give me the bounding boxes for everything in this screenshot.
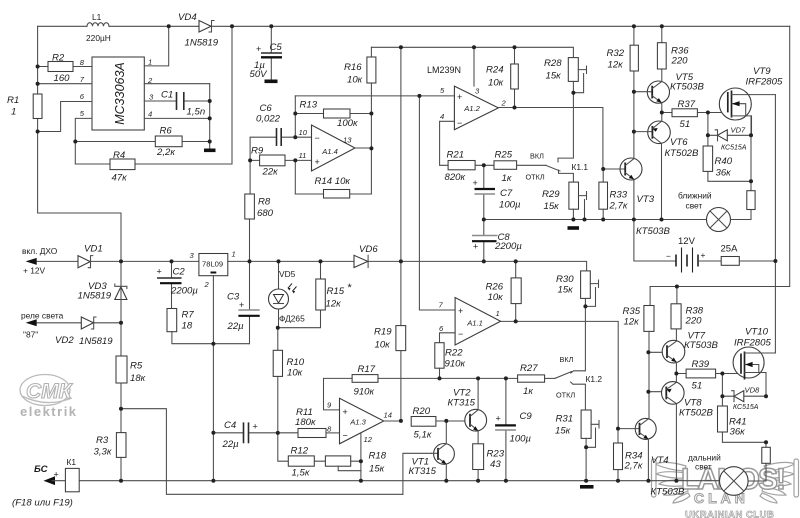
regulator 78L09 (190, 250, 236, 290)
resistor R1 (7, 94, 42, 119)
capacitor C3 (227, 261, 260, 343)
svg-text:C7: C7 (500, 188, 513, 199)
svg-text:820к: 820к (445, 172, 466, 183)
svg-text:R8: R8 (258, 197, 271, 208)
MOSFET VT9 IRF2805 (719, 66, 783, 135)
svg-text:+ 12V: + 12V (23, 266, 46, 276)
svg-text:R27: R27 (520, 363, 538, 374)
wire IC ground stem x=209.7 (209, 84, 211, 149)
svg-text:R6: R6 (160, 126, 173, 137)
inductor L1 (86, 12, 111, 43)
resistor R12 (278, 433, 326, 479)
resistor R41 (718, 396, 767, 442)
resistor R35 (623, 306, 655, 332)
wire A1.2 pin3 Vcc stub (473, 47, 475, 86)
junction dots bottom rail (119, 479, 678, 483)
junction dots left lower column (119, 321, 280, 435)
svg-text:+: + (315, 157, 320, 167)
resistor R14 (295, 176, 371, 198)
svg-text:15к: 15к (369, 464, 385, 475)
resistor R27 (518, 363, 555, 397)
wire A1.1 output to VT4 base (501, 321, 619, 428)
svg-text:реле света: реле света (21, 311, 64, 321)
svg-text:ФД265: ФД265 (279, 314, 305, 324)
junction dots oscillator A1.4 (248, 112, 373, 163)
resistor R23 (473, 444, 505, 481)
resistor ballast (near light) (747, 181, 755, 219)
capacitor C2 (157, 261, 199, 308)
switch K1.1 (526, 93, 589, 182)
svg-text:L1: L1 (92, 12, 102, 22)
wire pin2 (144, 83, 209, 85)
svg-text:R23: R23 (487, 449, 505, 460)
resistor R28 trimmer (544, 58, 587, 93)
svg-text:IRF2805: IRF2805 (734, 338, 771, 349)
svg-text:+: + (473, 242, 478, 252)
diode VD3 1N5819 (78, 281, 127, 302)
wire pin6 to R1 bottom (38, 102, 92, 132)
svg-text:12к: 12к (608, 60, 624, 71)
svg-text:51: 51 (692, 381, 703, 392)
svg-text:C6: C6 (260, 103, 273, 114)
svg-text:78L09: 78L09 (202, 260, 223, 269)
wire pin3 to C1 (144, 100, 209, 102)
svg-text:2,7к: 2,7к (624, 461, 643, 472)
svg-text:ОТКЛ: ОТКЛ (556, 391, 575, 400)
svg-text:R20: R20 (413, 406, 431, 417)
resistor R37 (672, 99, 728, 130)
svg-text:1,5n: 1,5n (187, 107, 206, 118)
op-amp A1.2 (440, 86, 507, 130)
wire A1.2 pin5 line y=95.9 (295, 95, 454, 97)
junction dots driver bottom (646, 285, 768, 445)
terminal arrow реле света 87 (21, 311, 64, 340)
capacitor C7 (473, 165, 522, 235)
wire supply riser x=401 (400, 47, 402, 421)
photodiode VD5 ФД265 (269, 261, 306, 327)
resistor R3 (94, 433, 127, 481)
capacitor C1 (161, 90, 205, 118)
svg-text:−: − (343, 431, 348, 441)
svg-text:elektrik: elektrik (20, 404, 78, 419)
resistor R26 (486, 261, 522, 321)
svg-text:A1.1: A1.1 (466, 319, 483, 328)
resistor R40 (703, 135, 751, 181)
svg-text:1к: 1к (523, 386, 533, 397)
resistor R22 (435, 343, 466, 379)
relay coil K1 БС (12, 457, 121, 509)
svg-text:R9: R9 (251, 146, 264, 157)
svg-text:R3: R3 (96, 435, 109, 446)
svg-text:10: 10 (299, 128, 308, 137)
svg-text:"87": "87" (23, 330, 38, 340)
svg-text:К1.1: К1.1 (572, 162, 589, 172)
svg-text:R24: R24 (486, 65, 504, 76)
transistor VT4 KT503B (618, 418, 685, 497)
svg-text:C3: C3 (227, 292, 240, 303)
svg-text:+: + (253, 422, 258, 432)
resistor R20 (411, 406, 465, 441)
svg-text:UKRAINIAN CLUB: UKRAINIAN CLUB (685, 510, 774, 518)
svg-text:КТ502В: КТ502В (665, 148, 700, 159)
svg-text:VD4: VD4 (178, 12, 197, 23)
svg-text:+: + (256, 44, 261, 54)
svg-text:220: 220 (685, 316, 703, 327)
wire VT9 drain bus x=775.4 (774, 95, 776, 353)
svg-text:12V: 12V (678, 236, 696, 247)
op-amp A1.4 (299, 125, 372, 171)
wire VT8 collector (675, 404, 677, 481)
resistor R19 (374, 326, 406, 351)
svg-text:51: 51 (680, 119, 691, 130)
svg-text:ВКЛ: ВКЛ (560, 355, 574, 364)
svg-text:+: + (457, 92, 462, 102)
wire left input vertical x=37.6 (38, 26, 121, 261)
wire A1.2 pin4 jog (440, 121, 455, 165)
svg-text:R19: R19 (374, 327, 392, 338)
svg-text:+: + (496, 414, 501, 424)
svg-text:220µН: 220µН (86, 33, 111, 43)
MOSFET VT10 IRF2805 (733, 327, 775, 397)
resistor R31 trimmer (555, 410, 599, 481)
wire VT1 base riser (403, 453, 432, 494)
svg-text:R5: R5 (130, 361, 143, 372)
svg-text:MC33063A: MC33063A (113, 62, 127, 125)
svg-text:VT6: VT6 (670, 137, 688, 148)
svg-text:2: 2 (204, 280, 210, 289)
svg-text:910к: 910к (445, 359, 466, 370)
svg-text:100к: 100к (337, 118, 358, 129)
svg-text:1: 1 (496, 309, 500, 318)
svg-text:R12: R12 (291, 446, 309, 457)
switch K1.2 (555, 306, 602, 410)
resistor R8 (245, 194, 274, 261)
svg-text:1N5819: 1N5819 (78, 291, 112, 302)
svg-text:VT9: VT9 (753, 66, 771, 77)
junction dots A1.2 nets (417, 91, 575, 168)
svg-text:4: 4 (440, 112, 444, 121)
svg-text:свет: свет (686, 201, 703, 211)
svg-text:R39: R39 (692, 359, 710, 370)
svg-text:R10: R10 (287, 357, 305, 368)
resistor R9 (250, 146, 311, 178)
svg-text:R28: R28 (544, 58, 562, 69)
lamp far light (дальний свет) (688, 453, 766, 496)
svg-text:VD7: VD7 (731, 126, 747, 135)
svg-text:свет: свет (695, 462, 712, 472)
resistor R25 (494, 150, 546, 185)
resistor R17 (324, 364, 518, 398)
junction dots A1.1 nets (514, 304, 620, 449)
svg-text:(F18 или F19): (F18 или F19) (12, 498, 73, 509)
svg-text:R26: R26 (486, 282, 504, 293)
resistor ballast (far light) (762, 442, 771, 481)
transistor VT7 KT503B (662, 331, 718, 363)
svg-text:−: − (457, 118, 462, 128)
resistor R32 (607, 26, 639, 91)
junction dots 9V rail (119, 259, 518, 263)
wire A1.2-pin5 to A1.1-pin7 link x=419.4 (419, 96, 455, 310)
svg-text:22µ: 22µ (227, 321, 245, 332)
svg-text:18: 18 (182, 321, 193, 332)
resistor R13 (295, 100, 371, 130)
svg-text:VD1: VD1 (84, 244, 103, 255)
svg-text:К1: К1 (67, 457, 77, 467)
svg-text:3,3к: 3,3к (94, 447, 112, 458)
wire x=295.3 riser lower to R14 (294, 160, 296, 194)
svg-text:*: * (347, 282, 352, 294)
capacitor C8 (472, 232, 522, 261)
svg-text:1: 1 (148, 58, 152, 67)
op-amp A1.3 (327, 398, 401, 444)
svg-text:A1.4: A1.4 (321, 147, 338, 156)
svg-text:910к: 910к (354, 387, 375, 398)
op-amp A1.1 (439, 298, 501, 346)
svg-text:R31: R31 (556, 414, 574, 425)
svg-text:VT10: VT10 (745, 327, 769, 338)
svg-text:100µ: 100µ (499, 200, 521, 211)
resistor R2 (38, 53, 92, 85)
svg-text:25А: 25А (721, 244, 739, 255)
capacitor C9 (495, 378, 532, 480)
wire VT7/VT8 emitter node and R39 (676, 362, 686, 382)
svg-text:50V: 50V (250, 69, 269, 80)
wire VT3 collector / driver base bus x=633.9 (633, 92, 635, 220)
svg-text:C2: C2 (173, 267, 186, 278)
resistor R38 (671, 287, 704, 342)
svg-text:12к: 12к (624, 317, 640, 328)
svg-text:К1.2: К1.2 (586, 374, 603, 384)
svg-text:VD6: VD6 (359, 244, 378, 255)
resistor R7 (167, 309, 250, 344)
resistor R36 (657, 26, 689, 81)
wire A1.3 pin12 lead x=360.9 (360, 433, 362, 481)
svg-text:R14 10к: R14 10к (315, 176, 351, 187)
capacitor C4 (213, 420, 298, 450)
svg-text:10к: 10к (375, 340, 391, 351)
junction dots driver top (601, 90, 777, 263)
resistor R29 trimmer (542, 182, 587, 219)
svg-text:11: 11 (299, 151, 307, 160)
svg-text:43: 43 (490, 459, 501, 470)
junction dots left column (36, 65, 78, 144)
capacitor C6 (250, 103, 311, 194)
zener VD7 KC515A (715, 126, 747, 152)
svg-text:2,7к: 2,7к (609, 201, 628, 212)
svg-text:R7: R7 (182, 310, 195, 321)
terminal arrow вкл.ДХО +12V (22, 246, 58, 276)
svg-text:−: − (458, 329, 463, 339)
svg-text:22к: 22к (262, 167, 279, 178)
svg-text:1: 1 (232, 250, 236, 259)
resistor R4 (75, 26, 232, 183)
svg-text:C1: C1 (161, 90, 173, 101)
junction dots mid ground rail (482, 218, 664, 222)
svg-text:36к: 36к (730, 427, 746, 438)
wire A1.1 pin6 jog (440, 333, 456, 343)
svg-text:10к: 10к (488, 78, 504, 89)
ground IC (204, 149, 216, 153)
battery 12V (634, 220, 721, 273)
wire 78L09 pin2 ground bus x=213.4 (212, 276, 214, 481)
junction dots top rail (167, 24, 664, 28)
wire 9V rail y=261.4 (37, 261, 587, 271)
svg-text:КТ502В: КТ502В (679, 408, 714, 419)
svg-text:2200µ: 2200µ (494, 241, 522, 252)
wire VT7/VT8 base bus x=648.4 (648, 331, 667, 418)
svg-text:R37: R37 (678, 99, 696, 110)
svg-text:R13: R13 (300, 100, 318, 111)
svg-text:47к: 47к (112, 173, 128, 184)
wire pin5 node (75, 118, 92, 164)
wire pin4 (144, 117, 209, 119)
wire pin1 riser (144, 26, 168, 66)
diode VD1 (78, 244, 103, 268)
junction dots A1.3 nets (359, 376, 508, 463)
svg-text:15к: 15к (544, 201, 560, 212)
svg-text:КТ503В: КТ503В (651, 487, 686, 498)
svg-text:5,1к: 5,1к (414, 430, 432, 441)
svg-text:+: + (157, 267, 162, 277)
svg-text:C4: C4 (224, 420, 236, 431)
svg-text:R30: R30 (556, 274, 574, 285)
svg-text:IRF2805: IRF2805 (746, 77, 783, 88)
wire реле света line y=322.8 (37, 261, 121, 356)
svg-text:12к: 12к (326, 299, 342, 310)
svg-text:C9: C9 (520, 411, 533, 422)
svg-text:ОТКЛ: ОТКЛ (526, 173, 545, 182)
wire VT5/VT6 emitter node and R37 (662, 103, 672, 122)
svg-text:−: − (315, 133, 320, 143)
svg-text:180к: 180к (295, 417, 316, 428)
resistor R11 (295, 407, 340, 438)
capacitor C5 (250, 26, 283, 80)
watermark logo CMK elektrik (20, 375, 78, 420)
svg-text:R1: R1 (7, 95, 19, 106)
svg-text:ВКЛ: ВКЛ (530, 152, 544, 161)
svg-text:КТ315: КТ315 (409, 466, 437, 477)
svg-text:VD2: VD2 (55, 335, 74, 346)
svg-text:C5: C5 (270, 42, 283, 53)
wire A1.3 pin9 jog (324, 378, 340, 410)
ground bottom rail (580, 485, 594, 489)
svg-text:VD8: VD8 (745, 386, 761, 395)
IC MC33063A (80, 57, 154, 130)
svg-text:LM239N: LM239N (427, 65, 461, 75)
ground mid rail (568, 226, 580, 230)
svg-text:КТ503В: КТ503В (684, 340, 719, 351)
resistor R34 (614, 429, 643, 481)
svg-text:КС515А: КС515А (721, 145, 747, 152)
svg-text:КТ503В: КТ503В (670, 82, 705, 93)
svg-text:0,022: 0,022 (256, 114, 281, 125)
transistor VT6 KT502B (634, 121, 699, 159)
svg-text:вкл. ДХО: вкл. ДХО (22, 246, 58, 256)
transistor VT5 KT503B (634, 72, 705, 103)
svg-text:R22: R22 (445, 348, 463, 359)
svg-text:13: 13 (343, 136, 352, 145)
wire VT9 source vertical (750, 116, 752, 181)
resistor R10 (273, 328, 305, 433)
diode VD6 (354, 244, 378, 268)
wire top +U rail y=26 (38, 25, 790, 27)
svg-text:КС515А: КС515А (733, 404, 759, 411)
resistor R15 (278, 261, 352, 327)
svg-text:+: + (54, 470, 59, 480)
svg-text:R4: R4 (113, 150, 125, 161)
svg-text:ближний: ближний (678, 191, 712, 201)
svg-text:36к: 36к (716, 168, 732, 179)
svg-text:680: 680 (257, 208, 274, 219)
svg-text:R29: R29 (542, 189, 560, 200)
svg-text:14: 14 (384, 411, 392, 420)
svg-text:R16: R16 (344, 62, 362, 73)
svg-text:R25: R25 (495, 150, 513, 161)
resistor R16 (344, 47, 376, 194)
svg-text:R18: R18 (369, 451, 387, 462)
wire VT10 gate/protection branch (722, 374, 766, 397)
resistor R33 (599, 169, 628, 220)
svg-text:2,2к: 2,2к (156, 147, 175, 158)
junction dots Vcc rail y=47.3 (399, 45, 517, 49)
svg-text:12: 12 (364, 435, 373, 444)
svg-text:VT3: VT3 (637, 194, 655, 205)
svg-text:100µ: 100µ (510, 434, 532, 445)
transistor VT1 KT315 (409, 421, 455, 481)
wire R5-R3 node to VT1 base line (121, 383, 403, 494)
svg-text:2200µ: 2200µ (170, 286, 198, 297)
svg-text:VT4: VT4 (651, 455, 669, 466)
diode VD2 1N5819 (55, 317, 113, 347)
resistor R39 (686, 359, 741, 392)
svg-text:+: + (239, 300, 244, 310)
svg-text:1: 1 (11, 107, 16, 118)
svg-text:22µ: 22µ (222, 439, 240, 450)
svg-text:A1.3: A1.3 (349, 418, 366, 427)
transistor VT2 KT315 (448, 378, 487, 443)
svg-text:R40: R40 (715, 156, 733, 167)
lamp near light (ближний свет) (678, 191, 751, 232)
svg-text:R21: R21 (447, 150, 465, 161)
wire VT6 collector (661, 143, 663, 219)
resistor R30 trimmer (556, 271, 599, 307)
svg-text:БС: БС (34, 464, 49, 475)
watermark logo LANOS CLAN (652, 459, 799, 518)
zener VD8 KC515A (732, 386, 760, 412)
svg-text:R15: R15 (327, 286, 345, 297)
svg-text:+: + (458, 306, 463, 316)
wire Vcc comparator rail y=47.3 (371, 47, 573, 57)
svg-text:1к: 1к (502, 173, 512, 184)
svg-text:1,5к: 1,5к (292, 468, 310, 479)
transistor VT8 KT502B (662, 382, 714, 419)
wire x=295.3 riser upper (294, 96, 296, 137)
svg-text:10к: 10к (287, 368, 303, 379)
ground C5 (265, 80, 278, 84)
resistor R24 (486, 47, 518, 107)
svg-text:2: 2 (501, 99, 507, 108)
label LM239N (427, 65, 461, 75)
svg-text:A1.2: A1.2 (463, 104, 480, 113)
resistor R5 (116, 356, 146, 384)
diode VD4 1N5819 (178, 12, 219, 49)
svg-text:R35: R35 (623, 306, 641, 317)
wire VT9 gate/protection branch (708, 113, 751, 136)
svg-text:220: 220 (671, 56, 689, 67)
resistor R6 (75, 126, 209, 159)
svg-text:R17: R17 (358, 364, 376, 375)
wire +U drop right side x=789.7 / y=286.5 (650, 26, 790, 305)
